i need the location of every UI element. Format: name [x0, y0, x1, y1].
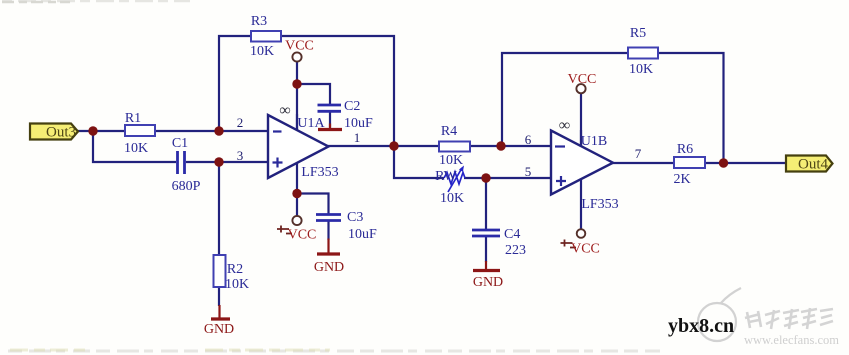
svg-text:R2: R2: [227, 262, 243, 277]
svg-text:5: 5: [525, 164, 532, 179]
svg-text:LF353: LF353: [581, 197, 618, 212]
svg-text:U1A: U1A: [297, 116, 325, 131]
svg-text:C3: C3: [347, 210, 363, 225]
svg-text:C4: C4: [504, 227, 520, 242]
svg-text:223: 223: [505, 243, 526, 258]
svg-text:GND: GND: [314, 260, 344, 275]
svg-text:VCC: VCC: [571, 242, 600, 257]
svg-text:680P: 680P: [172, 179, 201, 194]
svg-text:7: 7: [635, 146, 642, 161]
svg-text:2K: 2K: [673, 172, 690, 187]
svg-text:GND: GND: [204, 322, 234, 337]
svg-text:Out4: Out4: [798, 157, 829, 173]
svg-text:∞: ∞: [279, 102, 290, 119]
svg-text:GND: GND: [473, 275, 503, 290]
svg-text:3: 3: [237, 148, 244, 163]
svg-text:RW: RW: [435, 169, 458, 184]
svg-text:LF353: LF353: [301, 165, 338, 180]
svg-text:10K: 10K: [440, 191, 464, 206]
svg-text:10uF: 10uF: [348, 227, 377, 242]
svg-text:2: 2: [237, 115, 244, 130]
svg-text:ybx8.cn: ybx8.cn: [668, 315, 734, 337]
svg-text:10uF: 10uF: [344, 116, 373, 131]
svg-text:∞: ∞: [559, 117, 570, 134]
svg-text:C1: C1: [172, 136, 188, 151]
svg-text:10K: 10K: [250, 44, 274, 59]
svg-text:10K: 10K: [225, 277, 249, 292]
svg-text:www.elecfans.com: www.elecfans.com: [744, 333, 839, 347]
svg-text:Out3: Out3: [46, 125, 76, 141]
svg-text:10K: 10K: [629, 62, 653, 77]
svg-text:10K: 10K: [124, 141, 148, 156]
svg-text:R4: R4: [441, 124, 457, 139]
svg-text:6: 6: [525, 132, 532, 147]
svg-text:R3: R3: [251, 14, 267, 29]
svg-text:VCC: VCC: [568, 72, 597, 87]
svg-text:VCC: VCC: [288, 228, 317, 243]
svg-text:1: 1: [354, 130, 361, 145]
svg-text:R5: R5: [630, 26, 646, 41]
svg-text:10K: 10K: [439, 153, 463, 168]
svg-text:VCC: VCC: [285, 39, 314, 54]
svg-text:R6: R6: [677, 142, 693, 157]
svg-text:R1: R1: [125, 111, 141, 126]
svg-text:C2: C2: [344, 99, 360, 114]
svg-text:U1B: U1B: [581, 134, 607, 149]
